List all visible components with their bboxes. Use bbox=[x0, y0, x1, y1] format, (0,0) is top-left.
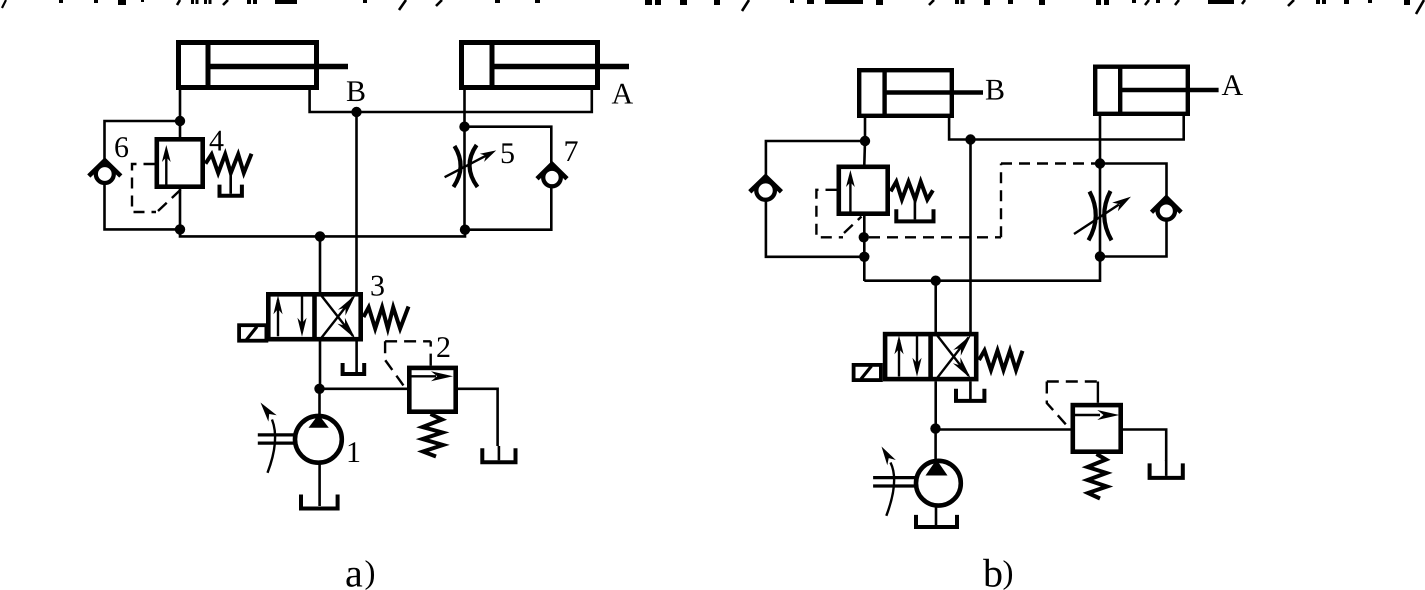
valve (b) crossed arrow down-right bbox=[937, 335, 969, 376]
valve (b) solenoid box bbox=[854, 365, 881, 380]
valve (b) tank symbol bbox=[956, 389, 984, 401]
cylinder A (diagram a) piston bbox=[490, 43, 495, 88]
label A (diagram b) bbox=[1222, 75, 1243, 95]
relief valve (b) body bbox=[1073, 405, 1121, 452]
pump 1 triangle bbox=[309, 415, 329, 428]
valve 3 return spring bbox=[364, 307, 409, 329]
relief valve (b) tank symbol bbox=[1150, 463, 1183, 478]
relief valve 2 body bbox=[409, 368, 455, 412]
pump (b) drive shaft bbox=[873, 476, 916, 479]
check valve 7 bbox=[543, 169, 561, 187]
junction dot bus to valve (b) bbox=[931, 276, 941, 286]
junction dot node (b) under cyl B bbox=[965, 134, 975, 144]
label 1 bbox=[349, 442, 360, 462]
cylinder B (diagram a) rod bbox=[210, 64, 348, 69]
wire: valve 4 bottom to node bbox=[179, 189, 182, 229]
sequence valve (b) internal flow arrow bbox=[849, 181, 851, 213]
valve 4 spring bbox=[206, 154, 252, 173]
sequence valve (b) body bbox=[839, 167, 888, 214]
junction dot bus to valve 3 bbox=[315, 231, 325, 241]
valve 4 drain tank bbox=[220, 185, 242, 196]
cylinder B (diagram b) rod bbox=[886, 90, 983, 95]
node B junction dot (diagram a) bbox=[351, 107, 361, 117]
throttle valve 5 arcs bbox=[454, 146, 461, 187]
valve 3 crossed arrow down-right bbox=[321, 295, 354, 337]
relief valve 2 spring bbox=[423, 414, 444, 457]
junction dot left port (b) bbox=[860, 136, 870, 146]
junction dot pilot takeoff (b) bbox=[859, 232, 869, 242]
relief valve (b) spring bbox=[1088, 454, 1108, 499]
remote pilot dashed line (b) bbox=[869, 236, 1001, 238]
cropped caption text fragments (top edge) bbox=[2, 0, 6, 8]
valve 3 tank symbol bbox=[343, 363, 365, 374]
valve 4 internal flow arrow bbox=[165, 156, 167, 186]
junction dot below throttle 5 bbox=[460, 225, 470, 235]
valve 3 body divider bbox=[312, 294, 317, 340]
wire: branch to check valve 6 (top) bbox=[105, 121, 181, 162]
cylinder A (diagram b) body bbox=[1095, 67, 1188, 114]
wire: cyl B(b) left port down bbox=[864, 116, 867, 143]
pump 1 drive shaft bbox=[258, 433, 294, 436]
wire: bus dot down to valve 3 P port bbox=[319, 236, 322, 293]
label 2 bbox=[437, 337, 449, 357]
wire: node to cyl A(b) right port bbox=[971, 114, 1184, 140]
relief valve 2 tank symbol bbox=[482, 448, 515, 462]
throttle valve (b) arcs bbox=[1089, 192, 1096, 241]
junction dot below throttle (b) bbox=[1095, 251, 1105, 261]
wire: relief valve 2 outlet to tank bbox=[458, 389, 498, 446]
label b) bbox=[983, 559, 1001, 587]
label 3 bbox=[371, 276, 383, 296]
valve 3 solenoid slash bbox=[246, 327, 257, 340]
valve (b) solenoid slash bbox=[861, 366, 872, 379]
wire: node B down to valve 3 bbox=[355, 112, 358, 293]
relief valve (b) internal arrow bbox=[1075, 414, 1101, 416]
wire: cyl B(b) right port to node bbox=[949, 116, 970, 140]
wire: valve 3 T port to tank bbox=[355, 342, 358, 373]
valve (b) return spring bbox=[979, 351, 1023, 371]
wire: cyl B right port to node B bbox=[310, 88, 592, 112]
wire: branch to check valve b2 bbox=[1100, 164, 1167, 199]
junction dot pump outlet bbox=[314, 384, 324, 394]
wire: pump 1 to tank bbox=[318, 463, 321, 506]
cylinder B (diagram b) body bbox=[859, 70, 952, 116]
valve 3 body bbox=[268, 294, 360, 339]
wire: pump node to relief valve (b) bbox=[936, 428, 1072, 431]
sequence valve (b) drain tank bbox=[896, 209, 933, 221]
pump (b) circle bbox=[916, 461, 961, 506]
check valve 6 bbox=[96, 165, 114, 183]
relief valve 2 internal arrow bbox=[411, 375, 436, 377]
junction dot above throttle (b) bbox=[1095, 158, 1105, 168]
valve 4 (relief/sequence) body bbox=[157, 139, 203, 186]
wire: cyl A left port down to throttle branch bbox=[463, 88, 466, 228]
cylinder A (diagram a) rod bbox=[494, 64, 629, 69]
wire: branch to check valve b1 bbox=[766, 141, 865, 178]
wire: dot to valve 4 top bbox=[179, 121, 182, 140]
junction dot above valve 4 bbox=[175, 116, 185, 126]
valve (b) left square up arrow bbox=[898, 340, 900, 377]
cylinder A (diagram b) piston bbox=[1118, 67, 1122, 115]
junction dot above throttle 5 bbox=[459, 122, 469, 132]
label B (diagram a) bbox=[347, 81, 365, 101]
throttle valve 5 adjust arrow bbox=[445, 156, 486, 178]
label 7 bbox=[565, 141, 577, 161]
cylinder B (diagram a) body bbox=[179, 43, 317, 88]
valve 3 crossed arrow up-right bbox=[321, 298, 354, 340]
pump 1 variable arrow bbox=[268, 420, 276, 473]
pump (b) triangle bbox=[926, 460, 948, 476]
label 4 bbox=[210, 131, 224, 151]
wire: relief valve (b) outlet to tank bbox=[1123, 430, 1166, 462]
pump 1 tank symbol bbox=[301, 495, 338, 509]
sequence valve (b) pilot dashed L-loop bbox=[816, 190, 843, 238]
valve 3 left square down arrow bbox=[301, 295, 303, 332]
wire: check valve b2 to bottom node bbox=[1100, 220, 1167, 257]
wire: check valve 6 to bottom node bbox=[105, 183, 181, 229]
label B (diagram b) bbox=[986, 80, 1004, 100]
valve 4 pilot dashed line bbox=[132, 164, 156, 212]
wire: cyl B left port down bbox=[179, 88, 182, 123]
label A (diagram a) bbox=[612, 84, 633, 104]
junction dot pump outlet (b) bbox=[930, 423, 940, 433]
relief valve (b) pilot line bbox=[1097, 382, 1099, 403]
check valve b1 bbox=[756, 181, 775, 200]
junction dot check loop (b) bbox=[859, 252, 869, 262]
cylinder B (diagram a) piston bbox=[206, 43, 211, 88]
pump (b) tank symbol bbox=[916, 515, 957, 527]
wire: bottom bus (diagram b) bbox=[864, 257, 1100, 281]
wire: node to pump (b) bbox=[934, 429, 937, 460]
label 6 bbox=[115, 137, 128, 157]
wire: pump node to relief valve 2 bbox=[320, 387, 409, 390]
wire: bottom bus (diagram a) bbox=[180, 229, 465, 236]
valve 3 left square up arrow bbox=[277, 300, 279, 336]
valve 3 solenoid box bbox=[239, 325, 266, 341]
sequence valve (b) spring bbox=[891, 182, 933, 200]
wire: check valve 7 to bottom node bbox=[465, 186, 551, 230]
pump 1 circle bbox=[295, 416, 342, 463]
wire: valve (b) P port down to pump node bbox=[934, 381, 937, 428]
label a) bbox=[346, 568, 362, 587]
wire: node down to valve (b) crossing bus bbox=[969, 140, 972, 333]
throttle valve (b) adjust arrow bbox=[1074, 205, 1119, 235]
valve (b) body divider bbox=[928, 334, 933, 380]
relief valve 2 pilot dashed line bbox=[430, 341, 432, 365]
wire: bus dot down to valve (b) bbox=[934, 281, 937, 333]
wire: dot to sequence valve (b) bbox=[863, 141, 866, 165]
label 5 bbox=[502, 143, 514, 163]
valve (b) body bbox=[885, 334, 976, 379]
pump (b) variable arrow bbox=[886, 463, 894, 516]
wire: sequence valve (b) bottom line bbox=[863, 216, 866, 281]
wire: valve 3 P port down to pump node bbox=[319, 342, 322, 389]
wire: branch to check valve 7 (top) bbox=[465, 127, 552, 165]
valve (b) crossed arrow up-right bbox=[937, 338, 969, 379]
wire: cyl A(b) left port down bbox=[1099, 114, 1102, 255]
wire: check valve b1 to bottom node bbox=[766, 200, 864, 257]
valve (b) left square down arrow bbox=[916, 335, 918, 372]
cylinder A (diagram b) rod bbox=[1122, 88, 1219, 93]
wire: valve (b) T port to tank bbox=[969, 381, 972, 399]
junction dot below valve 4 bbox=[175, 224, 185, 234]
check valve b2 bbox=[1158, 202, 1175, 219]
wire: pump (b) to tank bbox=[935, 506, 938, 525]
cylinder B (diagram b) piston bbox=[882, 70, 886, 116]
cylinder A (diagram a) body bbox=[462, 43, 598, 88]
wire: node to pump 1 bbox=[318, 389, 321, 418]
